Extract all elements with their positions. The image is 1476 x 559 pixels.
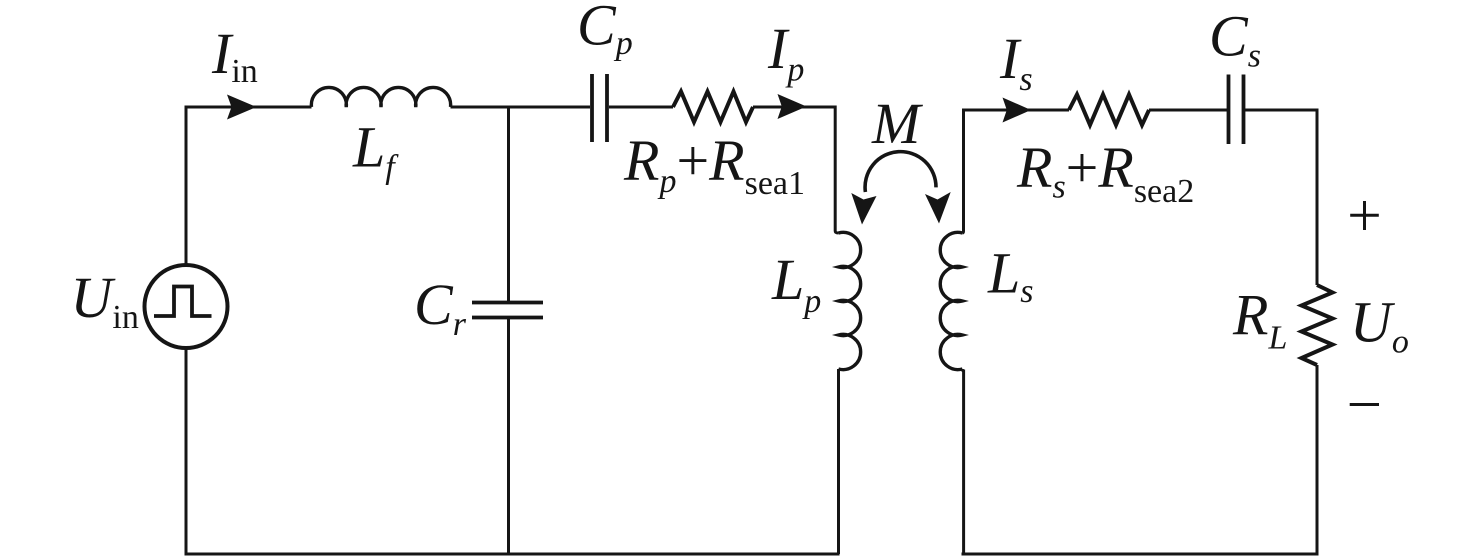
svg-text:Cr: Cr bbox=[414, 272, 467, 343]
svg-text:Uin: Uin bbox=[71, 265, 139, 336]
svg-text:M: M bbox=[871, 91, 923, 156]
svg-text:Ls: Ls bbox=[987, 241, 1034, 311]
svg-text:Lp: Lp bbox=[771, 247, 821, 320]
svg-text:Rp+Rsea1: Rp+Rsea1 bbox=[623, 128, 805, 202]
svg-text:Rs+Rsea2: Rs+Rsea2 bbox=[1016, 135, 1194, 210]
svg-text:Lf: Lf bbox=[352, 115, 399, 187]
svg-text:Is: Is bbox=[999, 26, 1033, 98]
svg-text:Iin: Iin bbox=[211, 21, 258, 90]
svg-text:Ip: Ip bbox=[767, 16, 804, 89]
svg-text:Uo: Uo bbox=[1350, 290, 1409, 361]
svg-text:RL: RL bbox=[1232, 283, 1287, 357]
svg-text:Cs: Cs bbox=[1209, 4, 1261, 75]
svg-text:Cp: Cp bbox=[577, 0, 633, 62]
